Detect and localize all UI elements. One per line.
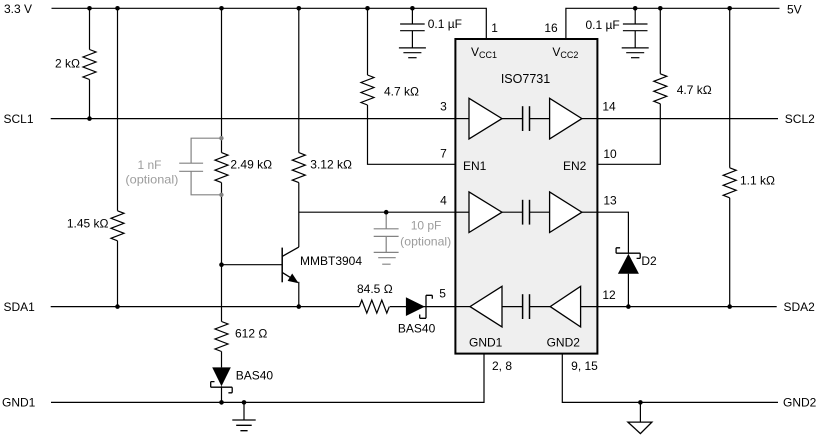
svg-text:SCL2: SCL2	[785, 112, 815, 126]
svg-text:EN2: EN2	[563, 159, 587, 173]
svg-text:3: 3	[440, 99, 447, 113]
svg-text:14: 14	[602, 99, 616, 113]
svg-text:16: 16	[544, 21, 558, 35]
svg-text:D2: D2	[641, 254, 657, 268]
svg-text:1: 1	[491, 21, 498, 35]
svg-text:0.1 µF: 0.1 µF	[586, 18, 620, 32]
svg-text:7: 7	[440, 146, 447, 160]
svg-text:0.1 µF: 0.1 µF	[428, 17, 462, 31]
svg-text:EN1: EN1	[463, 159, 487, 173]
svg-text:(optional): (optional)	[125, 173, 178, 187]
svg-text:10 pF: 10 pF	[411, 218, 442, 232]
svg-text:3.12 kΩ: 3.12 kΩ	[310, 158, 352, 172]
svg-text:(optional): (optional)	[400, 234, 451, 248]
svg-text:2, 8: 2, 8	[492, 359, 512, 373]
svg-text:BAS40: BAS40	[398, 321, 436, 335]
svg-text:2 kΩ: 2 kΩ	[55, 57, 80, 71]
svg-text:4.7 kΩ: 4.7 kΩ	[384, 84, 419, 98]
svg-text:GND1: GND1	[469, 336, 503, 350]
svg-text:ISO7731: ISO7731	[501, 72, 550, 86]
svg-text:GND1: GND1	[2, 396, 36, 410]
svg-text:13: 13	[603, 193, 617, 207]
svg-text:4: 4	[440, 194, 447, 208]
svg-text:10: 10	[603, 147, 617, 161]
svg-text:12: 12	[602, 288, 616, 302]
svg-text:612 Ω: 612 Ω	[235, 326, 267, 340]
svg-text:5V: 5V	[787, 2, 802, 16]
svg-text:1 nF: 1 nF	[137, 158, 161, 172]
svg-text:SCL1: SCL1	[4, 112, 34, 126]
svg-text:BAS40: BAS40	[236, 369, 274, 383]
svg-text:SDA2: SDA2	[784, 300, 816, 314]
svg-text:1.45 kΩ: 1.45 kΩ	[67, 217, 109, 231]
svg-text:4.7 kΩ: 4.7 kΩ	[677, 83, 712, 97]
svg-text:9, 15: 9, 15	[571, 359, 598, 373]
svg-text:5: 5	[439, 286, 446, 300]
svg-text:2.49 kΩ: 2.49 kΩ	[230, 158, 272, 172]
svg-text:SDA1: SDA1	[4, 300, 36, 314]
svg-text:GND2: GND2	[783, 396, 817, 410]
svg-text:1.1 kΩ: 1.1 kΩ	[740, 173, 775, 187]
svg-text:MMBT3904: MMBT3904	[300, 254, 362, 268]
svg-text:84.5 Ω: 84.5 Ω	[357, 282, 393, 296]
svg-text:GND2: GND2	[547, 336, 581, 350]
svg-text:3.3 V: 3.3 V	[4, 2, 32, 16]
